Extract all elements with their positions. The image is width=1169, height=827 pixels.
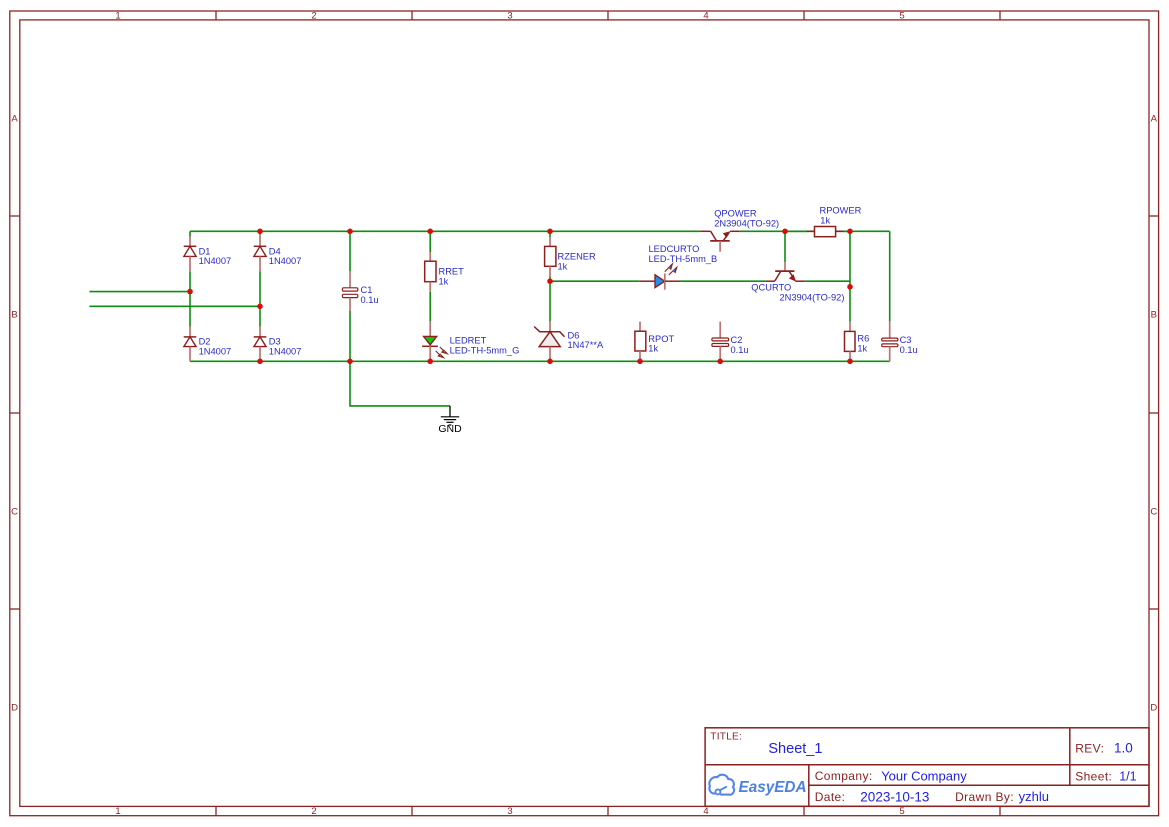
junction dots [187, 229, 853, 365]
svg-text:LED-TH-5mm_B: LED-TH-5mm_B [649, 254, 718, 264]
svg-text:C: C [1150, 506, 1157, 517]
wire RPOWER left [785, 230, 807, 232]
svg-text:4: 4 [703, 806, 708, 817]
svg-text:QCURTO: QCURTO [751, 283, 791, 293]
resistor R6 [845, 322, 870, 362]
svg-text:1/1: 1/1 [1119, 769, 1136, 783]
resistor RZENER [545, 237, 596, 276]
diode D4 [254, 235, 302, 272]
svg-text:1: 1 [115, 806, 120, 817]
svg-text:2: 2 [311, 806, 316, 817]
svg-text:Date:: Date: [815, 790, 846, 804]
diode D1 [184, 237, 231, 272]
svg-text:Sheet_1: Sheet_1 [768, 741, 822, 757]
wire QCURTO base drop [784, 231, 786, 262]
svg-text:RZENER: RZENER [558, 252, 597, 262]
svg-text:REV:: REV: [1075, 742, 1104, 756]
svg-text:0.1u: 0.1u [731, 345, 749, 355]
svg-text:D3: D3 [269, 337, 281, 347]
svg-text:4: 4 [703, 10, 708, 21]
svg-text:1N47**A: 1N47**A [568, 340, 604, 350]
svg-text:1N4007: 1N4007 [269, 256, 302, 266]
svg-text:1k: 1k [439, 276, 449, 286]
svg-text:LEDCURTO: LEDCURTO [649, 244, 700, 254]
resistor RRET [425, 252, 464, 292]
wire branch RZENER-D6 [549, 231, 551, 321]
wire branch D4-D3 [259, 231, 261, 326]
wire GND run [350, 361, 450, 406]
svg-text:1.0: 1.0 [1114, 741, 1133, 756]
svg-text:D6: D6 [568, 330, 580, 340]
svg-text:Drawn By:: Drawn By: [955, 790, 1014, 804]
svg-text:3: 3 [507, 10, 512, 21]
zener diode D6 [534, 322, 604, 362]
wire LED row [550, 280, 850, 282]
svg-text:RPOT: RPOT [648, 334, 674, 344]
LED LEDCURTO [640, 244, 717, 290]
svg-text:1k: 1k [648, 344, 658, 354]
svg-text:C: C [11, 506, 18, 517]
LED LEDRET [422, 321, 519, 361]
diode D2 [184, 327, 231, 362]
wire branch RRET-LEDRET [429, 231, 431, 321]
svg-text:RRET: RRET [439, 267, 465, 277]
transistor QPOWER [700, 209, 779, 252]
svg-text:C1: C1 [361, 285, 373, 295]
svg-text:B: B [1151, 309, 1157, 320]
svg-text:1N4007: 1N4007 [269, 346, 302, 356]
svg-text:RPOWER: RPOWER [820, 206, 862, 216]
svg-text:A: A [1151, 113, 1158, 124]
svg-text:2023-10-13: 2023-10-13 [860, 789, 929, 804]
svg-text:QPOWER: QPOWER [714, 209, 757, 219]
svg-text:Your Company: Your Company [881, 768, 967, 783]
svg-text:A: A [11, 113, 18, 124]
svg-text:1k: 1k [820, 215, 830, 225]
svg-text:2N3904(TO-92): 2N3904(TO-92) [714, 218, 779, 228]
svg-text:D2: D2 [199, 337, 211, 347]
capacitor C3 [882, 322, 918, 362]
svg-text:1: 1 [115, 10, 120, 21]
svg-text:R6: R6 [857, 334, 869, 344]
svg-text:2N3904(TO-92): 2N3904(TO-92) [780, 293, 845, 303]
wire input 2 [89, 305, 260, 307]
svg-text:TITLE:: TITLE: [710, 732, 742, 743]
svg-text:5: 5 [899, 806, 904, 817]
title block [705, 728, 1149, 807]
svg-text:D: D [11, 702, 18, 713]
svg-text:LEDRET: LEDRET [450, 336, 487, 346]
svg-text:C2: C2 [731, 335, 743, 345]
svg-text:C3: C3 [900, 335, 912, 345]
svg-text:1N4007: 1N4007 [199, 256, 232, 266]
transistor QCURTO [751, 262, 844, 302]
wire input 1 [89, 291, 190, 293]
svg-text:D1: D1 [199, 246, 211, 256]
svg-text:3: 3 [507, 806, 512, 817]
wire R6 branch [849, 231, 851, 321]
svg-text:Company:: Company: [815, 769, 873, 783]
capacitor C2 [712, 322, 749, 362]
wire C3 branch [889, 231, 891, 321]
svg-text:1k: 1k [857, 343, 867, 353]
svg-text:D: D [1150, 702, 1157, 713]
svg-text:2: 2 [311, 10, 316, 21]
svg-text:B: B [11, 309, 17, 320]
svg-text:1k: 1k [558, 261, 568, 271]
svg-text:0.1u: 0.1u [900, 345, 918, 355]
svg-text:Sheet:: Sheet: [1075, 769, 1112, 783]
resistor RPOWER [807, 206, 862, 237]
diode D3 [254, 327, 302, 362]
ground GND [438, 406, 462, 435]
wire branch C1 [349, 231, 351, 361]
svg-text:EasyEDA: EasyEDA [739, 779, 807, 796]
svg-text:1N4007: 1N4007 [199, 346, 232, 356]
svg-text:5: 5 [899, 10, 904, 21]
svg-text:0.1u: 0.1u [361, 295, 379, 305]
wire branch D1-D2 [189, 231, 191, 326]
svg-text:LED-TH-5mm_G: LED-TH-5mm_G [450, 345, 520, 355]
wire RPOWER right [843, 230, 850, 232]
svg-text:D4: D4 [269, 246, 281, 256]
EasyEDA logo [709, 775, 806, 796]
svg-text:yzhlu: yzhlu [1019, 789, 1049, 804]
wire bottom rail [190, 360, 890, 362]
svg-text:GND: GND [438, 423, 462, 435]
capacitor C1 [342, 271, 378, 311]
wire top rail right [739, 230, 890, 232]
wire top rail left [190, 230, 700, 232]
resistor RPOT [635, 322, 675, 362]
